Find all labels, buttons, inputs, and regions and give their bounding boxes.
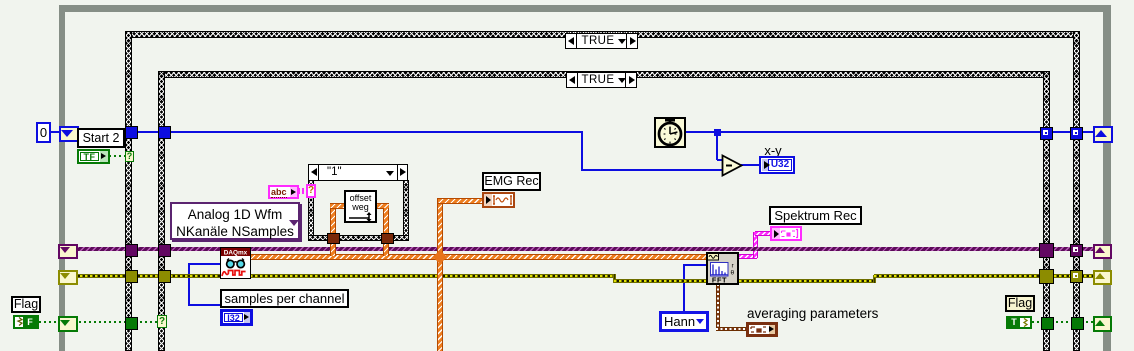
svg-text:θ: θ <box>731 270 735 277</box>
tunnel green inner-right <box>1041 317 1054 330</box>
inner case structure top border <box>158 71 1050 78</box>
label x-y <box>760 143 786 158</box>
green boolean wire right Flag to tunnel <box>1032 321 1042 323</box>
shift register left green <box>58 316 78 332</box>
FFT Spectral Measurements icon <box>706 252 739 285</box>
cluster constant averaging parameters <box>746 322 778 337</box>
tunnel blue outer-right <box>1070 127 1083 140</box>
boolean constant TF <box>77 149 110 164</box>
clock Tick Count ms <box>654 117 686 148</box>
case selector "1" small case <box>308 164 408 181</box>
tunnel brown small case bottom right <box>381 233 394 244</box>
numeric constant I32 <box>220 309 253 326</box>
wire blue DAQ samples horizontal lower <box>188 304 221 306</box>
shift register left blue <box>59 126 79 142</box>
wire blue subtract output <box>741 164 760 166</box>
green boolean wire tunnel to question tunnel <box>135 321 159 323</box>
junction dot blue <box>714 129 721 136</box>
tunnel purple outer-left <box>125 244 138 257</box>
tunnel olive inner-left <box>158 270 171 283</box>
orange waveform wire branch to EMG Rec <box>438 198 484 204</box>
orange wire small case right tunnel down <box>383 241 389 256</box>
numeric constant 0 <box>36 122 51 143</box>
label Flag left <box>11 296 41 313</box>
label Spektrum Rec <box>769 206 862 225</box>
numeric indicator U32 <box>759 156 795 174</box>
wire blue shift register across to drop <box>75 131 583 133</box>
green boolean wire to right shift register <box>1081 321 1094 323</box>
tunnel olive inner-right <box>1039 269 1054 284</box>
wire blue Hann vertical <box>683 264 685 312</box>
tunnel green question outer-left (TF case input) <box>125 151 134 162</box>
label samples per channel <box>220 289 349 308</box>
label Start 2 <box>77 128 125 148</box>
tunnel purple inner-right <box>1039 243 1054 258</box>
shift register right purple <box>1093 244 1112 259</box>
while loop left border <box>59 5 65 351</box>
local variable Flag left <box>13 315 39 329</box>
wire blue lower horizontal to subtract <box>581 169 723 171</box>
yellow error wire right segment <box>874 274 1094 278</box>
small case structure right border <box>403 180 409 241</box>
tunnel green question inner-left <box>157 315 167 328</box>
orange wire inside case top horizontal <box>330 203 389 209</box>
tunnel brown small case bottom left <box>327 233 340 244</box>
yellow error wire step down <box>613 274 616 283</box>
pink cluster wire vertical <box>753 232 758 258</box>
orange junction diamond <box>433 250 447 264</box>
pink cluster wire FFT to corner horizontal <box>738 254 757 259</box>
subtract function <box>721 154 744 177</box>
yellow error wire middle segment <box>614 279 875 283</box>
wire blue DAQ samples vertical <box>188 263 190 306</box>
wire blue clock output across to right shift register <box>686 131 1093 133</box>
shift register right green <box>1093 316 1112 332</box>
case selector TRUE outer <box>565 33 638 49</box>
outer case structure left border <box>125 31 132 351</box>
while loop right border <box>1103 5 1111 351</box>
outer case structure top border <box>125 31 1080 38</box>
waveform array indicator EMG Rec <box>482 192 515 208</box>
string constant abc <box>268 185 299 199</box>
tunnel blue inner-left <box>158 126 171 139</box>
tunnel olive outer-right <box>1070 270 1083 283</box>
orange waveform wire big vertical <box>437 198 443 351</box>
tunnel olive outer-left <box>125 270 138 283</box>
shift register left purple <box>58 244 78 259</box>
wire blue junction vertical to subtract top input <box>716 132 718 160</box>
shift register right blue <box>1093 126 1113 143</box>
shift register left olive <box>58 270 78 285</box>
wire blue DAQ samples horizontal upper <box>188 263 221 265</box>
wire blue Hann horizontal to FFT <box>683 264 707 266</box>
green boolean wire between right tunnels <box>1051 321 1072 323</box>
shift register right olive <box>1093 270 1112 285</box>
label averaging parameters <box>747 306 947 321</box>
tunnel purple inner-left <box>158 244 171 257</box>
cluster array indicator Spektrum Rec <box>770 226 802 241</box>
brown cluster wire horizontal to averaging cluster <box>716 327 747 331</box>
tunnel green outer-right <box>1071 317 1084 330</box>
brown cluster wire vertical from FFT <box>716 284 720 330</box>
tunnel purple outer-right <box>1070 244 1083 257</box>
wire blue into subtract top <box>717 159 723 161</box>
yellow error wire step up <box>873 275 876 283</box>
while loop top border <box>59 5 1111 12</box>
wire blue vertical drop <box>581 131 583 171</box>
wire blue 0 to shift register <box>50 131 60 133</box>
small case structure left border <box>308 180 314 241</box>
DAQmx Read VI icon <box>220 247 251 279</box>
orange wire inside case left vertical <box>330 203 336 235</box>
tunnel blue inner-right <box>1040 127 1053 140</box>
svg-text:FFT: FFT <box>712 275 727 284</box>
tunnel green outer-left <box>125 317 138 330</box>
inner case structure left border <box>158 71 165 351</box>
label EMG Rec <box>482 172 541 191</box>
green boolean wire TF to question tunnel <box>109 155 127 157</box>
inner case structure right border <box>1043 71 1050 351</box>
case selector TRUE inner <box>566 72 637 88</box>
tunnel blue outer-left <box>125 126 138 139</box>
combo box constant Hann <box>659 311 709 332</box>
purple DAQmx task wire across <box>73 247 1094 251</box>
orange waveform wire main horizontal <box>250 254 707 260</box>
outer case structure right border <box>1073 31 1080 351</box>
orange wire inside case right vertical <box>383 208 389 235</box>
svg-text:DAQmx: DAQmx <box>224 250 248 257</box>
local variable Flag right <box>1006 316 1032 329</box>
yellow error wire left segment <box>65 274 616 278</box>
pink string wire squiggle abc to tunnel <box>298 188 307 194</box>
sub-VI icon offset weg <box>344 190 377 223</box>
small case structure bottom border <box>308 235 409 241</box>
orange wire small case left tunnel down <box>330 241 336 256</box>
green boolean wire Flag to left shift register <box>39 321 59 323</box>
label Flag right <box>1005 295 1035 312</box>
ring constant Analog 1D Wfm NKanaele NSamples <box>170 202 300 240</box>
pink cluster wire top horizontal to Spektrum Rec <box>755 231 771 236</box>
tunnel magenta question on small case <box>306 184 316 198</box>
green boolean wire shift register to tunnel <box>74 321 127 323</box>
